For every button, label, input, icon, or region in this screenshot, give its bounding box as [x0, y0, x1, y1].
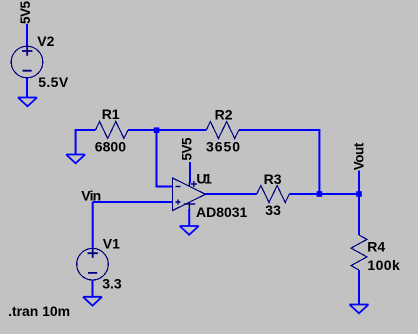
wire Vout node down to R4: [358, 194, 360, 235]
svg-text:5V5: 5V5: [180, 137, 195, 161]
wire V1 bottom: [92, 280, 94, 297]
svg-text:R3: R3: [264, 171, 282, 187]
ground left of R1: [66, 155, 85, 164]
wire Vin to non-inverting input: [93, 201, 173, 203]
wire R1 left corner to ground: [76, 130, 96, 155]
op-amp V- power mark: [184, 202, 195, 210]
wire R2 right and drop to output node: [239, 130, 320, 194]
svg-text:R4: R4: [367, 239, 385, 255]
ground below V1: [83, 297, 102, 306]
wire R1 right to R2 left: [128, 129, 206, 131]
junction at R1/R2 node: [154, 127, 160, 133]
wire op-amp output to R3: [206, 193, 257, 195]
op-amp non-inverting input mark: [176, 200, 181, 205]
resistor R4: [351, 235, 367, 270]
voltage source V1: [77, 248, 109, 280]
voltage source V2: [11, 46, 43, 78]
wire V2 bottom: [26, 78, 28, 98]
wire V2 top stub: [26, 24, 28, 46]
wire V1 top: [92, 202, 94, 248]
ground below V2: [18, 98, 37, 107]
svg-text:100k: 100k: [367, 257, 400, 273]
svg-text:R1: R1: [102, 106, 120, 122]
wire junction down to inverting input: [157, 130, 173, 187]
ground below R4: [350, 305, 369, 314]
wire op-amp V+ stub: [189, 162, 191, 183]
op-amp V+ power mark: [189, 181, 197, 187]
svg-text:6800: 6800: [95, 139, 126, 155]
svg-text:33: 33: [265, 202, 281, 218]
svg-text:3.3: 3.3: [102, 276, 122, 292]
junction at feedback node: [317, 191, 323, 197]
op-amp U1 triangle: [173, 178, 206, 211]
ground below op-amp: [180, 226, 199, 235]
op-amp inverting input mark: [176, 186, 181, 188]
resistor R1: [96, 122, 129, 139]
svg-text:5.5V: 5.5V: [38, 74, 69, 90]
wire R3 right to Vout node: [289, 193, 359, 195]
resistor R3: [257, 186, 290, 203]
svg-text:V2: V2: [37, 33, 54, 49]
svg-text:AD8031: AD8031: [196, 204, 248, 220]
svg-text:Vout: Vout: [352, 142, 367, 170]
svg-text:U1: U1: [196, 170, 212, 186]
svg-text:.tran 10m: .tran 10m: [8, 303, 70, 319]
wire op-amp V- to ground: [188, 209, 190, 226]
svg-text:3650: 3650: [206, 139, 240, 155]
wire Vout stub: [358, 171, 360, 195]
resistor R2: [206, 122, 239, 139]
svg-text:V1: V1: [103, 235, 120, 251]
junction at Vout node: [356, 191, 362, 197]
wire R4 bottom: [358, 270, 360, 305]
svg-text:R2: R2: [215, 106, 233, 122]
svg-text:5V5: 5V5: [18, 0, 33, 24]
